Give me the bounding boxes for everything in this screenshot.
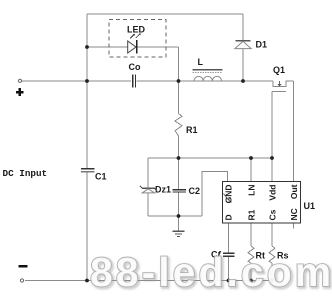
- wire bottom rail: [25, 280, 272, 282]
- svg-text:D: D: [224, 214, 234, 220]
- svg-text:Cs: Cs: [268, 209, 278, 220]
- node main rail left: [85, 79, 89, 83]
- node bottom rail left: [85, 279, 89, 283]
- svg-text:C1: C1: [95, 172, 107, 182]
- svg-text:Co: Co: [129, 62, 141, 72]
- inductor L: [193, 57, 223, 81]
- node R1 top: [177, 79, 181, 83]
- wire D pin to Cf: [228, 223, 230, 281]
- capacitor C2: [173, 186, 200, 196]
- svg-text:DC Input: DC Input: [3, 168, 48, 179]
- svg-text:U1: U1: [304, 201, 316, 211]
- node R1 bottom: [177, 156, 181, 160]
- node ground net: [177, 214, 181, 218]
- resistor Rt: [248, 246, 265, 263]
- svg-text:R1: R1: [247, 209, 257, 220]
- svg-text:88-led.com: 88-led.com: [90, 249, 332, 295]
- wire ground net: [148, 215, 202, 217]
- wire C2 branch: [178, 158, 180, 216]
- svg-text:Vdd: Vdd: [268, 185, 278, 201]
- wire Cs pin to Rs: [271, 223, 273, 281]
- diode D1: [235, 40, 267, 50]
- svg-text:LN: LN: [247, 185, 257, 196]
- wire LN pin: [250, 158, 252, 182]
- wire LED branch: [87, 47, 179, 81]
- node Rs bottom: [270, 279, 274, 283]
- op-amp U1 (controller IC): [223, 182, 316, 224]
- ground: [173, 216, 185, 236]
- wire Out / Q1 source vertical: [293, 81, 295, 182]
- zener diode Dz1: [140, 185, 171, 195]
- capacitor Co: [129, 62, 141, 88]
- svg-text:Out: Out: [289, 184, 299, 199]
- wire GND pin bend: [202, 172, 228, 217]
- LED dashed enclosure: [109, 20, 166, 58]
- capacitor C1: [81, 169, 107, 182]
- wire NC stub: [293, 223, 295, 229]
- wire left vertical: [86, 14, 88, 281]
- wire R1 pin to Rt: [250, 223, 252, 281]
- node LED branch tap: [85, 45, 89, 49]
- terminal +: [16, 79, 24, 96]
- svg-text:R1: R1: [186, 125, 198, 135]
- svg-text:Dz1: Dz1: [155, 185, 171, 195]
- node Cf bottom: [227, 279, 231, 283]
- node Rt bottom: [249, 279, 253, 283]
- svg-text:NC: NC: [289, 208, 299, 220]
- LED D: [127, 25, 146, 54]
- wire main rail: [22, 80, 273, 82]
- wire Dz1 branch: [147, 158, 149, 216]
- wire R1 branch: [178, 81, 180, 158]
- svg-text:C2: C2: [189, 186, 201, 196]
- svg-text:Q1: Q1: [273, 65, 285, 75]
- capacitor Cf: [211, 250, 235, 260]
- wire mid horizontal net: [148, 157, 272, 159]
- svg-text:D1: D1: [256, 40, 268, 50]
- node D1 bottom: [241, 79, 245, 83]
- transistor Q1 (MOSFET): [272, 65, 294, 92]
- terminal -: [19, 265, 28, 282]
- node LN net: [249, 156, 253, 160]
- watermark: [90, 249, 332, 296]
- svg-text:LED: LED: [127, 25, 146, 35]
- node Vdd net: [270, 156, 274, 160]
- resistor Rs: [269, 246, 289, 263]
- resistor R1: [175, 114, 198, 137]
- wire top rail: [87, 13, 243, 15]
- wire Vdd / Q1 gate vertical: [271, 92, 273, 183]
- svg-text:L: L: [198, 57, 204, 67]
- wire D1 branch: [242, 14, 244, 81]
- svg-text:GND: GND: [224, 185, 234, 204]
